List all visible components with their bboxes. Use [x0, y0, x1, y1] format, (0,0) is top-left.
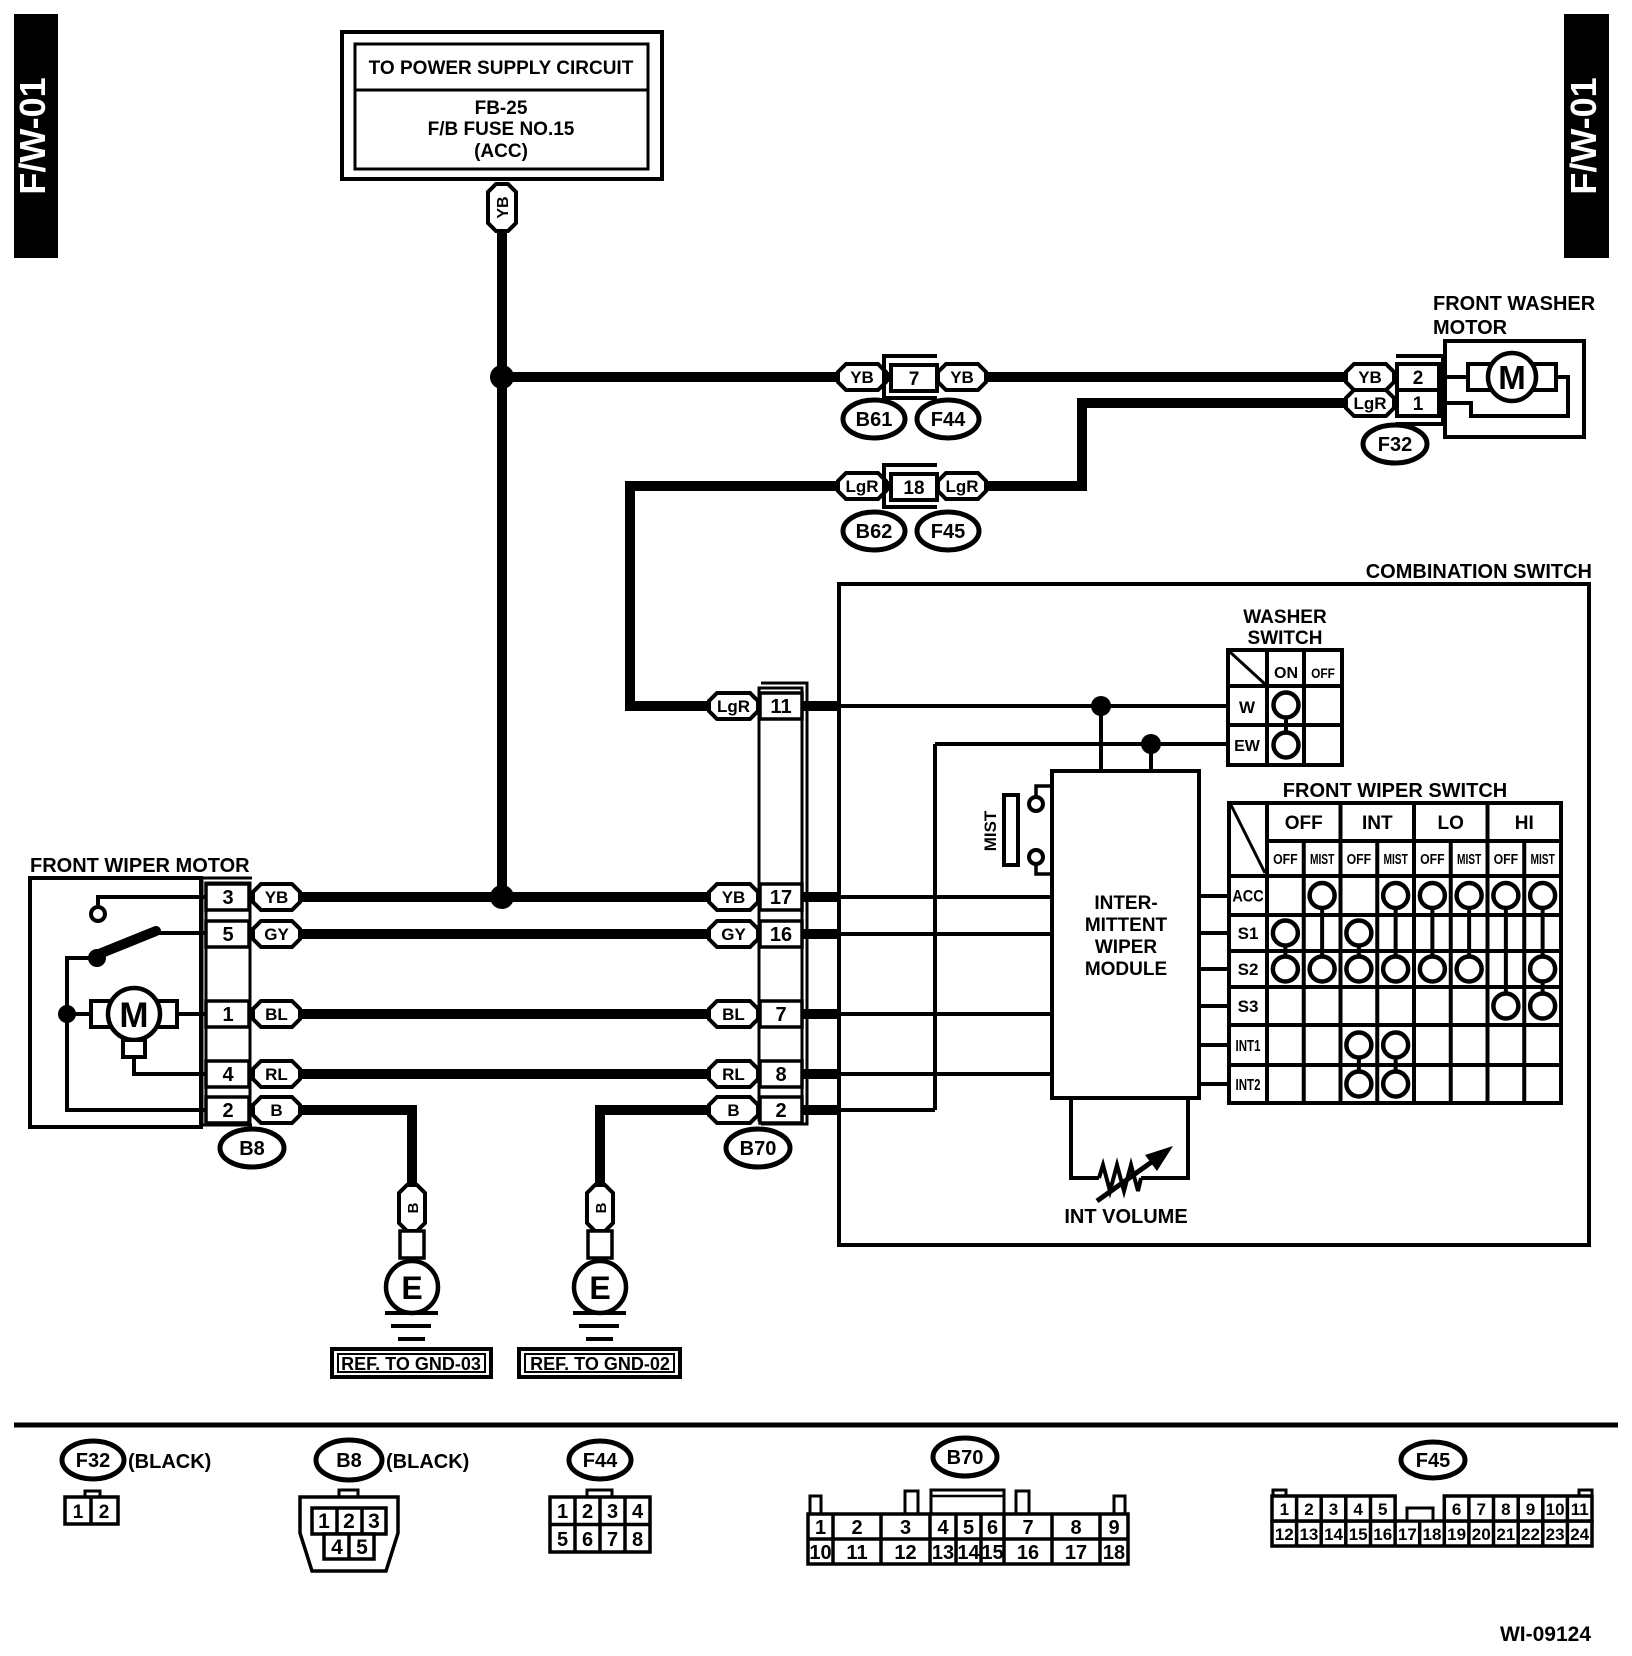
svg-text:B: B — [727, 1101, 739, 1120]
svg-text:B: B — [593, 1202, 610, 1213]
svg-text:MIST: MIST — [1310, 850, 1334, 868]
wiper motor park switch arm — [88, 931, 156, 967]
svg-text:LgR: LgR — [1353, 394, 1386, 413]
svg-text:17: 17 — [1398, 1525, 1417, 1544]
svg-text:REF. TO GND-03: REF. TO GND-03 — [341, 1354, 481, 1374]
junction dot motor left — [58, 1005, 76, 1023]
svg-text:MIST: MIST — [981, 810, 1000, 851]
ground GND-02 symbol E — [574, 1258, 626, 1313]
front wiper switch contact links — [1285, 896, 1542, 1085]
front washer motor brushes — [1468, 364, 1556, 390]
svg-text:F32: F32 — [1378, 434, 1412, 456]
svg-text:20: 20 — [1472, 1525, 1491, 1544]
svg-text:YB: YB — [265, 888, 289, 907]
svg-text:18: 18 — [1423, 1525, 1442, 1544]
power supply feed box FB-25 — [342, 32, 662, 179]
svg-text:6: 6 — [987, 1517, 998, 1539]
svg-text:EW: EW — [1234, 738, 1261, 755]
svg-text:TO POWER SUPPLY CIRCUIT: TO POWER SUPPLY CIRCUIT — [369, 58, 634, 79]
svg-text:(BLACK): (BLACK) — [386, 1451, 469, 1473]
front wiper switch group headers — [1285, 813, 1534, 834]
svg-text:OFF: OFF — [1347, 851, 1372, 867]
separator line — [14, 1423, 1618, 1428]
ground GND-03 symbol E — [386, 1258, 438, 1313]
svg-text:WIPER: WIPER — [1095, 937, 1158, 958]
front washer motor box — [1445, 341, 1584, 437]
svg-text:4: 4 — [1353, 1500, 1363, 1519]
svg-text:F/W-01: F/W-01 — [12, 77, 53, 194]
svg-text:7: 7 — [909, 369, 920, 390]
svg-text:F44: F44 — [583, 1450, 618, 1472]
wire label LgR right of F45 — [938, 473, 986, 499]
svg-text:16: 16 — [770, 924, 792, 946]
svg-text:13: 13 — [1299, 1525, 1318, 1544]
svg-text:ON: ON — [1274, 665, 1298, 682]
wire label LgR at F32-1 — [1346, 390, 1394, 416]
svg-text:9: 9 — [1526, 1500, 1535, 1519]
svg-text:16: 16 — [1373, 1525, 1392, 1544]
wire label B at GND-02 — [587, 1185, 613, 1231]
wire label BL at B8-1 — [253, 1001, 300, 1027]
svg-text:14: 14 — [1324, 1525, 1343, 1544]
ground GND-03 terminal — [400, 1231, 424, 1258]
ground GND-02 strokes — [573, 1313, 626, 1339]
MIST switch contacts — [1029, 797, 1043, 864]
connector B8 strip — [202, 878, 252, 1125]
connector F45 pin face — [1272, 1490, 1592, 1546]
svg-text:8: 8 — [632, 1529, 643, 1551]
front washer motor internal wiring — [1437, 377, 1568, 416]
svg-text:INT VOLUME: INT VOLUME — [1064, 1206, 1187, 1228]
svg-text:18: 18 — [1103, 1542, 1125, 1564]
wire motor right brush to pin 1 — [177, 1012, 206, 1016]
wire module to S3 row — [1197, 1004, 1231, 1008]
svg-text:1: 1 — [557, 1501, 568, 1523]
svg-text:18: 18 — [903, 478, 924, 499]
svg-text:BL: BL — [722, 1005, 745, 1024]
svg-text:INT1: INT1 — [1236, 1036, 1261, 1054]
svg-text:2: 2 — [1413, 368, 1424, 389]
svg-text:S2: S2 — [1238, 960, 1259, 979]
svg-text:E: E — [401, 1270, 422, 1306]
svg-text:1: 1 — [1280, 1500, 1289, 1519]
svg-text:4: 4 — [331, 1536, 343, 1559]
svg-text:F/W-01: F/W-01 — [1563, 77, 1604, 194]
wiper motor third brush — [123, 1040, 145, 1057]
svg-text:4: 4 — [632, 1501, 644, 1523]
svg-text:(ACC): (ACC) — [474, 141, 528, 162]
svg-text:11: 11 — [770, 696, 791, 718]
svg-text:2: 2 — [775, 1100, 786, 1122]
wire motor left brush — [67, 1012, 91, 1016]
wire RL row B8-4 to B70-8 — [277, 1069, 781, 1079]
svg-text:B70: B70 — [740, 1138, 777, 1160]
svg-text:F44: F44 — [931, 409, 966, 431]
svg-text:7: 7 — [1022, 1517, 1033, 1539]
wire label YB at B8-3 — [253, 884, 300, 910]
wire MIST switch upper contact to module — [1036, 786, 1054, 798]
wire motor third brush to pin 4 — [134, 1056, 206, 1074]
connector ref B70 pinout — [933, 1438, 997, 1476]
connector B70 pin face — [808, 1490, 1128, 1564]
MIST switch body — [1004, 795, 1018, 865]
wire label GY at B8-5 — [253, 921, 300, 947]
wire stub B70-8 into combination switch — [802, 1069, 841, 1079]
svg-text:7: 7 — [1476, 1500, 1485, 1519]
front washer motor title — [1433, 293, 1596, 339]
svg-text:MITTENT: MITTENT — [1085, 915, 1168, 936]
wire label RL at B70-8 — [709, 1061, 758, 1087]
svg-text:B8: B8 — [239, 1138, 265, 1160]
svg-text:1: 1 — [318, 1510, 330, 1533]
wire EW branch to module — [1149, 744, 1153, 773]
connector ref B61 — [843, 400, 905, 438]
wire module to INT2 row — [1197, 1082, 1231, 1086]
wire module to S2 row — [1197, 967, 1231, 971]
svg-text:SWITCH: SWITCH — [1248, 628, 1323, 649]
svg-text:2: 2 — [851, 1517, 862, 1539]
wire stub B70-16 into combination switch — [802, 929, 841, 939]
svg-text:4: 4 — [937, 1517, 949, 1539]
svg-text:3: 3 — [1329, 1500, 1338, 1519]
wire label YB at B70-17 — [709, 884, 758, 910]
svg-text:5: 5 — [356, 1536, 368, 1559]
svg-text:17: 17 — [1065, 1542, 1087, 1564]
svg-text:3: 3 — [368, 1510, 380, 1533]
wire B from B8-2 to ground GND-03 — [277, 1110, 412, 1186]
connector F32 pin block — [1396, 356, 1443, 424]
washer switch title — [1243, 607, 1327, 649]
svg-text:RL: RL — [265, 1065, 288, 1084]
wire label YB right of F44 — [938, 364, 986, 390]
svg-text:8: 8 — [1501, 1500, 1510, 1519]
svg-text:FB-25: FB-25 — [475, 98, 528, 119]
svg-text:2: 2 — [99, 1502, 110, 1523]
svg-text:10: 10 — [809, 1542, 831, 1564]
svg-text:INT: INT — [1362, 813, 1393, 834]
svg-text:WASHER: WASHER — [1243, 607, 1327, 628]
svg-text:COMBINATION SWITCH: COMBINATION SWITCH — [1366, 561, 1592, 583]
svg-text:14: 14 — [957, 1542, 980, 1564]
svg-text:LgR: LgR — [717, 697, 750, 716]
ground reference box GND-03 — [332, 1349, 491, 1377]
wire label B at B70-2 — [709, 1097, 758, 1123]
svg-text:(BLACK): (BLACK) — [128, 1451, 211, 1473]
washer switch table — [1228, 650, 1342, 765]
svg-text:OFF: OFF — [1420, 851, 1445, 867]
svg-text:23: 23 — [1546, 1525, 1565, 1544]
svg-text:1: 1 — [815, 1517, 826, 1539]
svg-text:GY: GY — [721, 925, 746, 944]
wire module to S1 row — [1197, 931, 1231, 935]
svg-text:2: 2 — [343, 1510, 355, 1533]
svg-text:22: 22 — [1521, 1525, 1540, 1544]
wire label YB left of B61 — [838, 364, 886, 390]
svg-text:OFF: OFF — [1273, 851, 1298, 867]
connector ref F32 — [1363, 425, 1427, 463]
svg-text:10: 10 — [1546, 1500, 1565, 1519]
svg-text:YB: YB — [722, 888, 746, 907]
svg-text:1: 1 — [73, 1502, 84, 1523]
svg-text:RL: RL — [722, 1065, 745, 1084]
wire BL row to module — [839, 1012, 1054, 1016]
svg-text:1: 1 — [222, 1004, 233, 1026]
wire B row inside combination switch — [839, 1108, 935, 1112]
svg-text:YB: YB — [1358, 368, 1382, 387]
wire stub B70-2 into combination switch — [802, 1105, 841, 1115]
wire label LgR left of B62 — [838, 473, 886, 499]
svg-text:INTER-: INTER- — [1094, 893, 1157, 914]
combination switch box — [839, 584, 1589, 1245]
svg-text:9: 9 — [1108, 1517, 1119, 1539]
front washer motor M — [1488, 353, 1536, 401]
wire EW row to washer switch — [935, 742, 1228, 746]
wire module to ACC row — [1197, 894, 1231, 898]
svg-text:3: 3 — [607, 1501, 618, 1523]
svg-text:M: M — [1498, 359, 1526, 396]
wire YB row B8-3 to B70-17 — [277, 892, 781, 902]
svg-text:F/B FUSE NO.15: F/B FUSE NO.15 — [428, 119, 575, 140]
svg-text:INT2: INT2 — [1236, 1075, 1261, 1093]
connector ref F44 — [917, 400, 979, 438]
wire B from B70-2 to ground GND-02 — [600, 1110, 735, 1186]
svg-text:1: 1 — [1413, 394, 1424, 415]
svg-text:LO: LO — [1438, 813, 1464, 834]
wire GY row B8-5 to B70-16 — [277, 929, 781, 939]
svg-text:5: 5 — [963, 1517, 974, 1539]
svg-text:6: 6 — [582, 1529, 593, 1551]
svg-text:11: 11 — [846, 1542, 867, 1564]
connector ref B62 — [843, 512, 905, 550]
front wiper switch table grid — [1229, 803, 1561, 1103]
svg-text:W: W — [1239, 698, 1256, 717]
svg-text:LgR: LgR — [845, 477, 878, 496]
svg-text:OFF: OFF — [1311, 665, 1335, 681]
svg-text:5: 5 — [557, 1529, 568, 1551]
svg-text:3: 3 — [900, 1517, 911, 1539]
junction dot W branch — [1091, 696, 1111, 716]
junction dot YB row — [490, 885, 514, 909]
connector ref F44 pinout — [569, 1441, 631, 1479]
svg-text:MIST: MIST — [1457, 850, 1481, 868]
wire label B at B8-2 — [253, 1097, 300, 1123]
wire YB row to module — [839, 895, 1054, 899]
svg-text:B: B — [405, 1202, 422, 1213]
connector F32 pin face — [65, 1491, 118, 1524]
svg-text:OFF: OFF — [1285, 813, 1323, 834]
connector B70 strip — [759, 683, 807, 1124]
connector F44 pin face — [550, 1490, 650, 1552]
front wiper motor box — [30, 878, 201, 1127]
wire MIST switch lower contact to module — [1036, 863, 1054, 874]
svg-text:5: 5 — [1378, 1500, 1387, 1519]
front wiper switch contacts — [1273, 883, 1555, 1097]
svg-text:12: 12 — [894, 1542, 916, 1564]
INT VOLUME arrow — [1097, 1146, 1173, 1201]
wire stub B70-17 into combination switch — [802, 892, 841, 902]
svg-text:MOTOR: MOTOR — [1433, 317, 1508, 339]
svg-text:GY: GY — [264, 925, 289, 944]
svg-text:S1: S1 — [1238, 924, 1259, 943]
wire park switch common to pin 2 — [67, 958, 206, 1110]
wire RL row to module — [839, 1072, 1054, 1076]
wiper motor park contact wire to pin 3 — [98, 897, 206, 905]
svg-text:3: 3 — [222, 887, 233, 909]
svg-text:MODULE: MODULE — [1085, 959, 1167, 980]
wiper motor M — [108, 988, 160, 1040]
INT VOLUME resistor zigzag — [1099, 1165, 1141, 1191]
wire GY row to module — [839, 932, 1054, 936]
svg-text:F45: F45 — [931, 521, 965, 543]
svg-text:WI-09124: WI-09124 — [1500, 1623, 1591, 1646]
svg-text:B62: B62 — [856, 521, 893, 543]
svg-text:6: 6 — [1452, 1500, 1461, 1519]
svg-text:11: 11 — [1571, 1500, 1589, 1519]
wire YB horizontal row to front washer motor — [502, 372, 1346, 382]
svg-text:24: 24 — [1570, 1525, 1589, 1544]
wire YB main vertical from fuse — [497, 228, 507, 897]
wire stub B70-11 into combination switch — [802, 701, 841, 711]
svg-text:2: 2 — [582, 1501, 593, 1523]
svg-text:BL: BL — [265, 1005, 288, 1024]
washer switch contact W-ON — [1274, 693, 1299, 718]
connector joint B61-F44 pin 7 — [884, 356, 937, 398]
svg-text:HI: HI — [1515, 813, 1534, 834]
connector ref F45 pinout — [1401, 1442, 1465, 1478]
wire label LgR at B70-11 — [709, 693, 758, 719]
wire label GY at B70-16 — [709, 921, 758, 947]
svg-text:FRONT WASHER: FRONT WASHER — [1433, 293, 1596, 315]
svg-text:B70: B70 — [947, 1447, 984, 1469]
wire W branch to module — [1099, 706, 1103, 773]
svg-text:ACC: ACC — [1232, 887, 1263, 905]
wire LgR from front washer motor to combination switch pin 11 — [630, 403, 1346, 706]
wire BL row B8-1 to B70-7 — [277, 1009, 781, 1019]
svg-text:YB: YB — [495, 196, 512, 218]
front wiper switch sub headers — [1273, 850, 1555, 868]
svg-text:M: M — [119, 996, 148, 1035]
svg-text:MIST: MIST — [1530, 850, 1554, 868]
svg-text:17: 17 — [770, 887, 792, 909]
svg-text:12: 12 — [1275, 1525, 1294, 1544]
svg-text:YB: YB — [850, 368, 874, 387]
svg-text:S3: S3 — [1238, 997, 1259, 1016]
junction dot YB branch — [490, 365, 514, 389]
washer switch contact EW-ON — [1274, 733, 1299, 758]
connector ref B70 — [726, 1129, 790, 1167]
svg-text:2: 2 — [1304, 1500, 1313, 1519]
svg-text:5: 5 — [222, 924, 233, 946]
svg-text:B: B — [270, 1101, 282, 1120]
svg-text:15: 15 — [1349, 1525, 1368, 1544]
svg-text:7: 7 — [775, 1004, 786, 1026]
wiper motor park contact — [91, 907, 105, 921]
svg-text:OFF: OFF — [1494, 851, 1519, 867]
wire label YB fuse output — [488, 184, 516, 231]
ground reference box GND-02 — [519, 1349, 680, 1377]
svg-text:LgR: LgR — [945, 477, 978, 496]
svg-text:21: 21 — [1496, 1525, 1515, 1544]
page tag bar left F/W-01 — [12, 14, 58, 258]
connector ref B8 — [220, 1129, 284, 1167]
svg-text:16: 16 — [1017, 1542, 1039, 1564]
svg-text:MIST: MIST — [1383, 850, 1407, 868]
svg-text:2: 2 — [222, 1100, 233, 1122]
wiper motor brushes — [91, 1001, 177, 1027]
svg-text:4: 4 — [222, 1064, 234, 1086]
INT VOLUME variable resistor loop — [1071, 1098, 1188, 1178]
intermittent wiper module — [1052, 771, 1199, 1098]
svg-text:B61: B61 — [856, 409, 893, 431]
connector ref B8 pinout — [316, 1440, 382, 1480]
connector joint B62-F45 pin 18 — [884, 465, 937, 507]
svg-text:F32: F32 — [76, 1450, 110, 1472]
svg-text:FRONT WIPER MOTOR: FRONT WIPER MOTOR — [30, 855, 250, 877]
svg-text:13: 13 — [932, 1542, 954, 1564]
ground GND-02 terminal — [588, 1231, 612, 1258]
wire label B at GND-03 — [399, 1185, 425, 1231]
svg-text:8: 8 — [775, 1064, 786, 1086]
connector ref F45 inline — [917, 512, 979, 550]
svg-text:FRONT WIPER SWITCH: FRONT WIPER SWITCH — [1283, 780, 1507, 802]
svg-text:REF. TO GND-02: REF. TO GND-02 — [530, 1354, 670, 1374]
junction dot EW branch — [1141, 734, 1161, 754]
connector B8 pin face — [300, 1490, 398, 1571]
wire EW to ground link vertical — [933, 744, 937, 1110]
front wiper switch row headers — [1232, 887, 1263, 1093]
svg-text:YB: YB — [950, 368, 974, 387]
svg-text:8: 8 — [1070, 1517, 1081, 1539]
wire park switch arm to pin 5 — [155, 931, 206, 935]
svg-text:15: 15 — [981, 1542, 1003, 1564]
svg-text:F45: F45 — [1416, 1450, 1450, 1472]
wire label BL at B70-7 — [709, 1001, 758, 1027]
wire label YB at F32-2 — [1346, 364, 1394, 390]
wire label RL at B8-4 — [253, 1061, 300, 1087]
svg-text:E: E — [589, 1270, 610, 1306]
svg-text:B8: B8 — [336, 1450, 362, 1472]
wire stub B70-7 into combination switch — [802, 1009, 841, 1019]
ground GND-03 strokes — [385, 1313, 438, 1339]
page tag bar right F/W-01 — [1563, 14, 1609, 258]
svg-text:19: 19 — [1447, 1525, 1466, 1544]
connector ref F32 pinout — [62, 1441, 124, 1479]
wire module to INT1 row — [1197, 1043, 1231, 1047]
washer switch contact link — [1284, 712, 1288, 740]
wire W row to washer switch — [839, 704, 1228, 708]
svg-text:7: 7 — [607, 1529, 618, 1551]
